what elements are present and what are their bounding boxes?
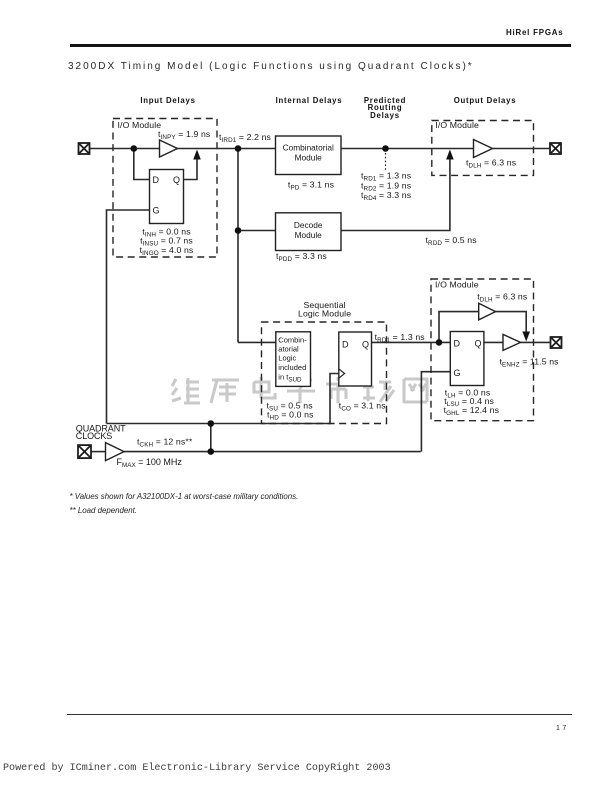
wire node A to D input of input latch [134, 149, 150, 180]
svg-text:Decode: Decode [294, 220, 323, 230]
svg-text:tIRD1 = 2.2 ns: tIRD1 = 2.2 ns [219, 132, 272, 144]
wire enable buffer to output pad 2 [521, 341, 551, 343]
sequential combinatorial logic box [276, 332, 311, 387]
footnote 2 [70, 506, 138, 515]
wire main line left (pad to combinatorial module) [90, 148, 276, 150]
svg-text:I/O Module: I/O Module [435, 120, 479, 130]
Decode Module box [276, 213, 342, 251]
svg-text:G: G [454, 368, 461, 378]
column heading Output Delays [435, 97, 535, 105]
column heading Input Delays [118, 97, 218, 105]
node C junction dot [235, 227, 242, 234]
svg-text:atorial: atorial [278, 344, 299, 353]
footnote 1 [70, 492, 299, 501]
svg-text:I/O Module: I/O Module [118, 120, 162, 130]
page title [68, 61, 474, 72]
header rule [70, 44, 571, 47]
svg-text:tPD = 3.1 ns: tPD = 3.1 ns [288, 179, 335, 191]
output enable buffer triangle [503, 334, 521, 350]
header text HiRel FPGAs [506, 28, 563, 37]
footer credit line [3, 763, 391, 774]
output pad 1 [550, 143, 561, 154]
page number 17 [556, 725, 569, 732]
svg-text:Combin-: Combin- [278, 336, 307, 345]
wire decode module output to up-arrow [341, 159, 450, 231]
svg-text:Q: Q [475, 339, 482, 349]
wire G input of input latch from clock line [107, 210, 150, 424]
wire clock pad to clock buffer [91, 451, 106, 453]
clock buffer triangle [106, 443, 125, 461]
svg-text:Q: Q [173, 175, 180, 185]
svg-text:tENHZ = 11.5 ns: tENHZ = 11.5 ns [500, 357, 560, 369]
svg-text:tRDD = 0.5 ns: tRDD = 0.5 ns [426, 235, 478, 247]
wire main line right (combinatorial module to output pad) [341, 148, 550, 150]
svg-text:D: D [153, 175, 160, 185]
svg-text:Module: Module [295, 153, 323, 163]
svg-text:Module: Module [295, 230, 323, 240]
wire to decode module input [238, 230, 276, 232]
I/O Module dashed box (output bottom) [431, 279, 534, 421]
wire output latch Q to enable buffer [484, 341, 503, 343]
svg-text:I/O Module: I/O Module [435, 280, 479, 290]
svg-text:tPDD = 3.3 ns: tPDD = 3.3 ns [276, 251, 327, 263]
svg-text:Logic Module: Logic Module [298, 308, 351, 318]
svg-text:CLOCKS: CLOCKS [76, 431, 113, 441]
column heading Internal Delays [259, 97, 359, 105]
clock junction dot lower [208, 448, 215, 455]
output pad 2 [551, 337, 562, 348]
wire tDLH buffer output to down-arrow [496, 312, 527, 333]
svg-text:Q: Q [362, 340, 369, 350]
svg-text:tCKH = 12 ns**: tCKH = 12 ns** [137, 437, 193, 449]
input latch box [150, 170, 184, 224]
clock junction dot upper [208, 420, 215, 427]
node B junction dot [235, 145, 242, 152]
svg-text:FMAX = 100 MHz: FMAX = 100 MHz [117, 457, 183, 469]
wire clock rail from buffer [124, 451, 421, 453]
wire junction between clock lines [210, 424, 212, 452]
svg-text:Combinatorial: Combinatorial [283, 143, 334, 153]
watermark 维库电子市场网 [172, 377, 427, 403]
svg-text:G: G [153, 206, 160, 216]
svg-text:tDLH = 6.3 ns: tDLH = 6.3 ns [477, 292, 528, 304]
node D junction dot (routing delays) [382, 145, 389, 152]
input pad [79, 143, 90, 154]
Sequential Logic Module dashed box [262, 322, 387, 424]
svg-text:Logic: Logic [278, 353, 296, 362]
arrowhead up from decode module [446, 150, 454, 160]
svg-text:D: D [342, 340, 349, 350]
wire node E up to tDLH buffer input [439, 312, 479, 343]
sequential DFF clock pin triangle [339, 369, 345, 378]
svg-text:tDLH = 6.3 ns: tDLH = 6.3 ns [466, 158, 517, 170]
node D dotted leader [385, 153, 387, 170]
wire Q output of input latch to up-arrow [184, 158, 198, 180]
sequential DFF box [339, 332, 372, 386]
node E junction dot [436, 339, 443, 346]
arrowhead up from input latch Q [193, 150, 201, 160]
node A junction dot [131, 145, 138, 152]
clock pad [78, 445, 91, 458]
Combinatorial Module box [276, 136, 342, 175]
wire sequential DFF Q to output latch D [372, 341, 451, 343]
svg-text:included: included [278, 363, 306, 372]
wire upper clock distribution line [107, 423, 332, 425]
arrowhead down from tDLH buffer [522, 332, 530, 342]
wire clock feed to sequential DFF clock pin [330, 374, 339, 424]
I/O Module dashed box (output top) [432, 121, 534, 176]
wire G input of output latch from clock rail [421, 372, 450, 452]
wire node B vertical trunk [237, 149, 239, 343]
svg-text:tCO = 3.1 ns: tCO = 3.1 ns [339, 401, 386, 413]
svg-text:D: D [454, 339, 461, 349]
wire to sequential combinatorial logic input [238, 341, 276, 343]
input buffer triangle [160, 140, 178, 157]
output buffer triangle (top) [474, 140, 493, 158]
output latch box [450, 332, 484, 386]
tDLH buffer triangle (bottom I/O module) [479, 303, 496, 320]
bottom rule [67, 714, 572, 715]
I/O Module dashed box (input) [113, 119, 217, 258]
svg-text:tINPY = 1.9 ns: tINPY = 1.9 ns [158, 129, 211, 141]
column heading Predicted Routing Delays [335, 97, 435, 121]
